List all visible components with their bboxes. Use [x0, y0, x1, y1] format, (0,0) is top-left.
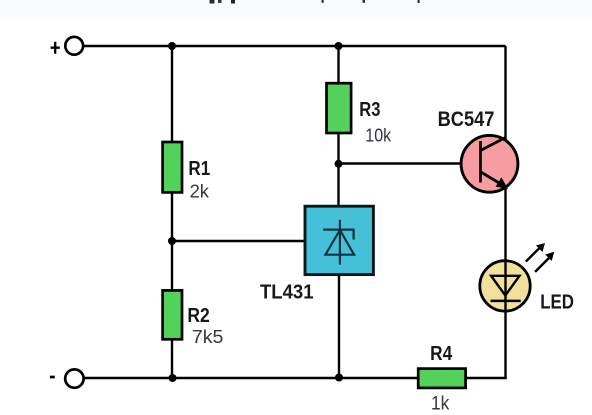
- svg-text:R4: R4: [430, 343, 453, 365]
- wire left branch middle (R1 to R2): [171, 192, 173, 291]
- node top-middle junction: [335, 42, 343, 50]
- svg-text:BC547: BC547: [438, 107, 495, 131]
- node base junction: [335, 160, 343, 168]
- node bottom-left junction: [169, 374, 177, 382]
- resistor R1: [163, 142, 211, 202]
- LED light arrow 2: [535, 252, 554, 272]
- cropped caption fragments: [210, 0, 420, 4]
- wire bottom rail left: [84, 377, 419, 379]
- wire middle branch (R3 to TL431): [337, 133, 339, 207]
- svg-text:TL431: TL431: [260, 281, 314, 304]
- wire top rail: [84, 45, 506, 47]
- svg-text:R3: R3: [359, 99, 380, 121]
- svg-text:LED: LED: [540, 291, 574, 313]
- svg-text:7k5: 7k5: [192, 326, 224, 347]
- wire reference (left node to TL431): [172, 240, 306, 242]
- svg-text:10k: 10k: [365, 125, 391, 146]
- node left reference junction: [168, 237, 176, 245]
- LED light arrow 1: [526, 243, 545, 262]
- wire LED to bottom rail: [504, 310, 506, 378]
- shunt regulator U1 TL431: [260, 206, 373, 303]
- svg-text:R1: R1: [188, 158, 210, 180]
- resistor R2: [163, 290, 224, 347]
- terminal + (positive input): [51, 37, 83, 55]
- wire base (node to BC547 base): [339, 162, 481, 164]
- node bottom-middle junction: [335, 374, 343, 382]
- wire left branch lower (R2 to bottom rail): [171, 339, 173, 378]
- svg-text:R2: R2: [187, 305, 209, 327]
- resistor R4: [418, 343, 465, 415]
- transistor Q1 BC547: [438, 107, 518, 192]
- wire emitter (BC547 to LED): [504, 185, 506, 262]
- svg-text:1k: 1k: [431, 393, 450, 415]
- svg-text:2k: 2k: [190, 181, 210, 202]
- wire middle branch upper (top rail to R3): [337, 46, 339, 84]
- wire middle branch lower (TL431 to bottom rail): [338, 274, 340, 378]
- wire collector (top rail to BC547): [504, 46, 506, 141]
- LED D1: [480, 261, 574, 314]
- node top-left junction: [168, 42, 176, 50]
- resistor R3: [327, 83, 392, 145]
- wire left branch upper (node to R1): [171, 46, 173, 143]
- wire bottom rail right: [465, 377, 507, 379]
- terminal - (negative input): [50, 369, 84, 387]
